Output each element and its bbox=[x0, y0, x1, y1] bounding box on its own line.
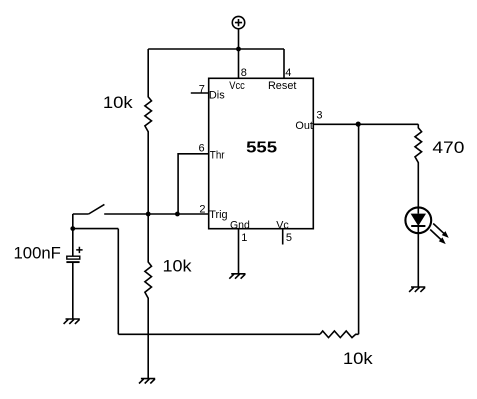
svg-text:Thr: Thr bbox=[210, 149, 225, 161]
svg-text:10k: 10k bbox=[343, 350, 374, 368]
svg-text:Vcc: Vcc bbox=[229, 80, 245, 92]
svg-text:2: 2 bbox=[199, 204, 205, 216]
svg-text:100nF: 100nF bbox=[14, 244, 61, 262]
svg-text:10k: 10k bbox=[163, 258, 193, 276]
svg-text:Trig: Trig bbox=[209, 209, 227, 221]
svg-text:3: 3 bbox=[316, 110, 322, 122]
svg-text:5: 5 bbox=[286, 232, 292, 244]
svg-text:470: 470 bbox=[432, 139, 464, 157]
svg-text:555: 555 bbox=[246, 140, 277, 157]
svg-text:Out: Out bbox=[295, 120, 313, 132]
svg-text:Reset: Reset bbox=[268, 80, 297, 92]
svg-text:7: 7 bbox=[199, 84, 205, 96]
svg-text:1: 1 bbox=[241, 232, 247, 244]
svg-text:10k: 10k bbox=[103, 94, 134, 112]
svg-text:Vc: Vc bbox=[276, 220, 289, 232]
svg-text:6: 6 bbox=[198, 142, 204, 154]
svg-text:Gnd: Gnd bbox=[230, 220, 250, 232]
svg-text:8: 8 bbox=[241, 67, 247, 79]
svg-text:4: 4 bbox=[285, 67, 291, 79]
svg-text:Dis: Dis bbox=[209, 89, 225, 101]
